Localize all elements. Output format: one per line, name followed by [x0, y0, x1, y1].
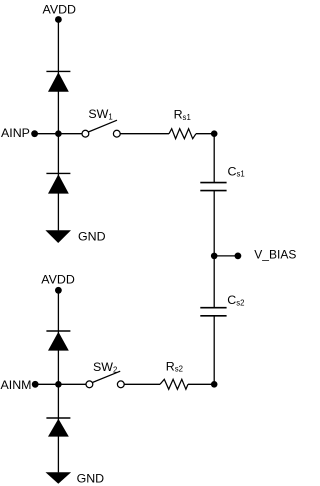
diode D3 (AINM to AVDD) cathode bar — [46, 330, 70, 332]
AINM terminal dot — [32, 381, 39, 388]
svg-text:Cs1: Cs1 — [228, 164, 245, 178]
wire: Rs1 to top-right corner — [196, 133, 214, 135]
wire: left rail from AVDD down to GND (top section) — [57, 20, 59, 231]
wire: left rail from AVDD down to GND (bottom section) — [57, 290, 59, 472]
ground symbol (bottom section) — [46, 472, 72, 484]
diode D2 (GND to AINP) cathode bar — [46, 172, 70, 174]
svg-text:Rs2: Rs2 — [166, 360, 183, 374]
junction dot at Rs1/Cs1 corner — [211, 130, 218, 137]
svg-text:AVDD: AVDD — [43, 2, 77, 16]
svg-text:Cs2: Cs2 — [227, 293, 244, 307]
AVDD terminal dot (bottom) — [55, 287, 62, 294]
switch SW2 left contact — [86, 381, 93, 388]
wire: AINP to SW1 — [35, 133, 83, 135]
wire: AINM to SW2 — [35, 383, 86, 385]
svg-text:AINM: AINM — [1, 378, 32, 392]
wire: SW2 to Rs2 — [124, 383, 160, 385]
V_BIAS terminal dot — [235, 253, 242, 260]
diode D4 (GND to AINM) cathode bar — [46, 417, 70, 419]
capacitor Cs2 top plate — [200, 307, 226, 309]
diode D3 body — [48, 332, 69, 351]
diode D4 body — [48, 419, 69, 437]
svg-text:SW2: SW2 — [93, 360, 117, 374]
junction: AINP node on left rail — [55, 130, 62, 137]
svg-text:GND: GND — [77, 472, 105, 486]
junction dot at Rs2/Cs2 corner — [211, 381, 218, 388]
svg-text:AVDD: AVDD — [41, 273, 75, 287]
svg-text:SW1: SW1 — [88, 107, 112, 121]
resistor Rs2 — [160, 379, 188, 389]
svg-text:Rs1: Rs1 — [174, 108, 191, 122]
switch SW1 lever — [88, 120, 117, 132]
diode D2 body — [48, 174, 69, 193]
diode D1 body — [48, 72, 69, 92]
switch SW1 left contact — [82, 130, 89, 137]
svg-text:V_BIAS: V_BIAS — [254, 247, 296, 261]
wire: corner down to Cs1 — [213, 134, 215, 183]
svg-text:AINP: AINP — [1, 126, 30, 140]
wire: Cs2 down to Rs2 junction — [213, 316, 215, 385]
wire: Rs2 to bottom-right junction — [188, 383, 214, 385]
switch SW1 right contact — [113, 130, 120, 137]
wire: SW1 to Rs1 — [120, 133, 169, 135]
switch SW2 right contact — [117, 381, 124, 388]
resistor Rs1 — [169, 129, 196, 139]
switch SW2 lever — [92, 371, 120, 382]
AINP terminal dot — [31, 130, 38, 137]
AVDD terminal dot (top) — [55, 16, 62, 23]
junction: V_BIAS tap on right rail — [211, 253, 218, 260]
capacitor Cs2 bottom plate — [200, 315, 226, 317]
capacitor Cs1 top plate — [200, 182, 226, 184]
diode D1 (AINP to AVDD) cathode bar — [46, 70, 70, 72]
wire: V_BIAS stub — [214, 255, 238, 257]
svg-text:GND: GND — [78, 230, 106, 244]
junction: AINM node on left rail — [55, 381, 62, 388]
wire: Cs1 down to Cs2 through V_BIAS node — [213, 191, 215, 308]
capacitor Cs1 bottom plate — [200, 190, 226, 192]
ground symbol (top section) — [45, 230, 71, 243]
